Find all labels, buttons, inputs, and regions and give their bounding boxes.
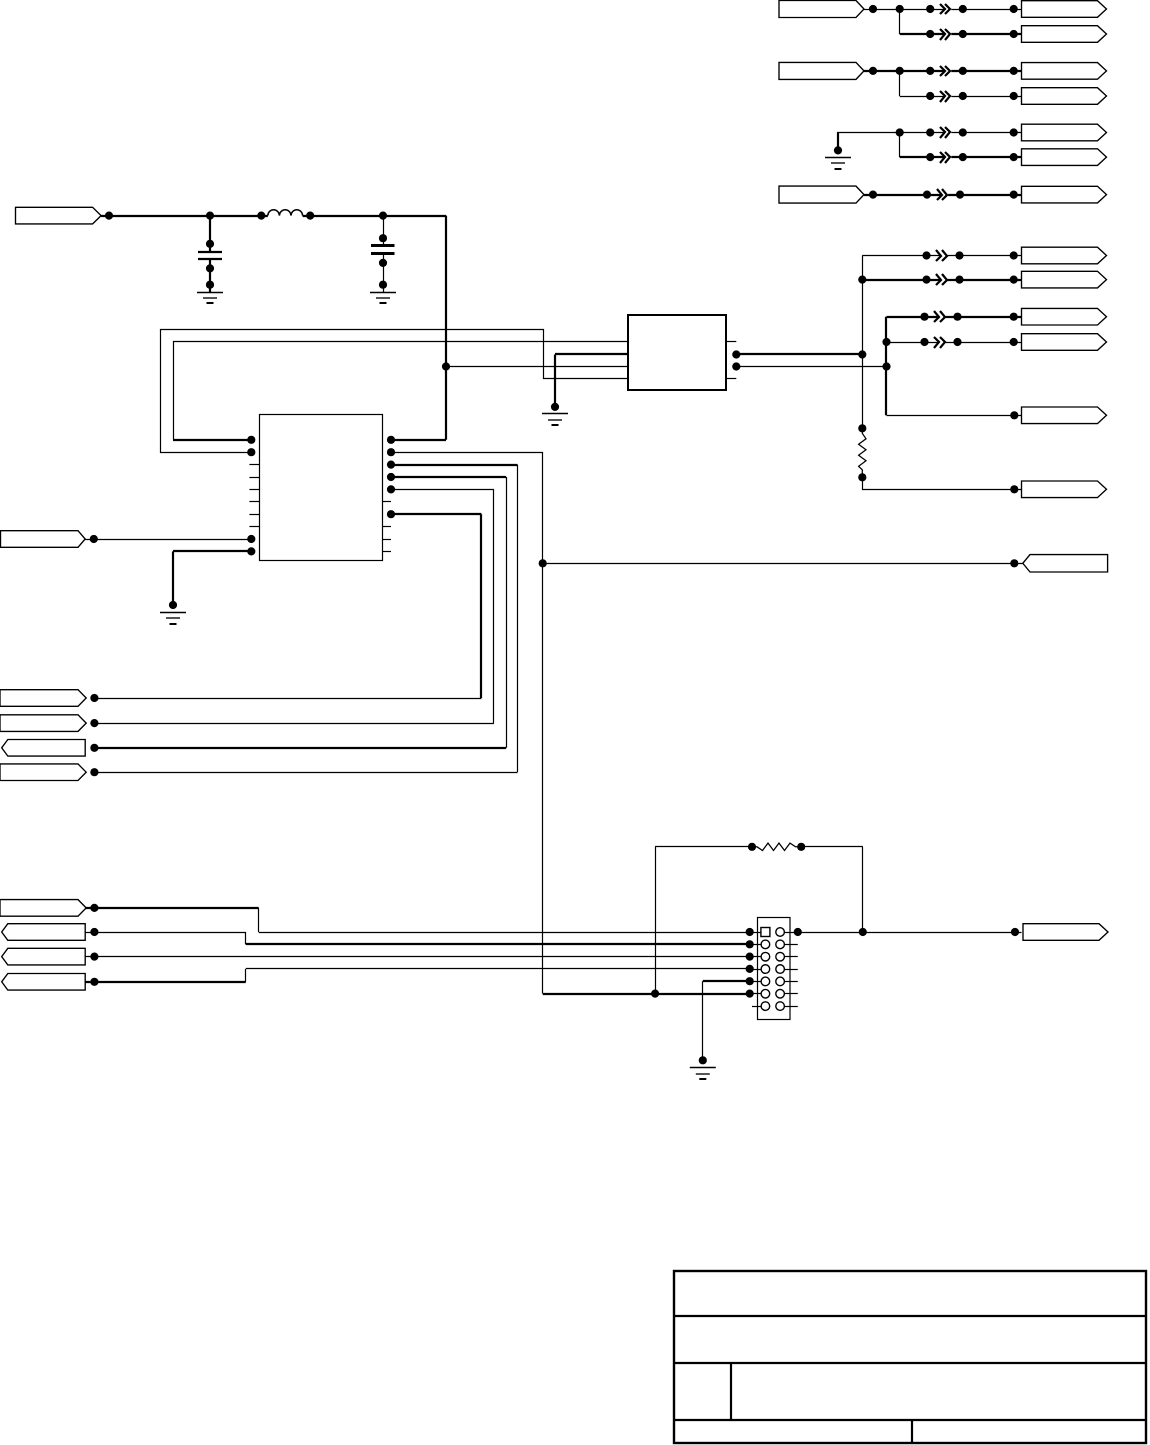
wire U1 pin Q3 net xyxy=(90,473,506,752)
wire serial to connector J1 pin11 xyxy=(543,990,754,998)
net flag IN4 (top group 4 source) xyxy=(779,186,864,203)
wire group2 branch xyxy=(899,71,901,96)
wire U1 pin Q6 net xyxy=(90,510,481,702)
wire R2 left leg xyxy=(655,847,752,994)
net flag SOUT xyxy=(1023,924,1108,941)
wire S2 to J1 pin3 xyxy=(85,928,754,949)
net flag OUT1A xyxy=(1022,1,1107,18)
wire row F xyxy=(863,478,1022,494)
wire power rail segment 2 xyxy=(303,212,446,220)
wire U2 pin3 output xyxy=(732,362,886,370)
wire row D with series link xyxy=(887,337,1022,348)
inductor L1 xyxy=(268,210,315,220)
wire IN2 feed xyxy=(864,67,900,75)
wire inner loop (U1 to U2 pin1) xyxy=(173,342,629,444)
net flag OUT2A xyxy=(1022,63,1107,80)
wire row A with series link xyxy=(862,250,1021,261)
net flag OUT3A xyxy=(1022,124,1107,141)
wire group3 row2 with series link xyxy=(900,152,1022,163)
wire group1 branch xyxy=(899,9,901,34)
capacitor C2 xyxy=(371,216,395,267)
net flag CLKE xyxy=(1022,407,1107,424)
net flag S1 xyxy=(0,900,86,917)
U2 pin stub right 1 xyxy=(726,341,736,343)
ground (group 3) xyxy=(825,146,851,169)
ground (J1) xyxy=(690,1068,716,1080)
wire group1 row2 with series link xyxy=(900,29,1022,40)
wire C1 to ground xyxy=(206,268,214,292)
net flag IN1 (top group 1 source) xyxy=(779,1,864,18)
wire row C with series link xyxy=(887,311,1022,322)
wire power rail segment 1 xyxy=(101,212,268,220)
net flag CLKA xyxy=(1022,247,1107,264)
wire S3 to J1 pin5 xyxy=(85,953,754,961)
wire serial to flag xyxy=(543,559,1023,567)
wire IN1 feed xyxy=(864,5,900,13)
net flag OUT2B xyxy=(1022,88,1107,105)
net flag SERIAL (west) xyxy=(1023,555,1108,572)
wire group4 feed xyxy=(864,191,941,199)
wire group2 row2 with series link xyxy=(900,91,1022,102)
connector J1 left pins xyxy=(761,940,770,1010)
net flag CLKF xyxy=(1022,481,1107,498)
net flag OUT3B xyxy=(1022,149,1107,166)
wire U1 pin Q2 net xyxy=(90,461,517,777)
wire outer loop (U1 to U2 pin4) xyxy=(161,330,629,457)
wire S4 to J1 pin7 xyxy=(85,965,754,986)
U1 right pin stubs xyxy=(383,502,391,552)
net flag CLKB xyxy=(1022,271,1107,288)
ground (U2) xyxy=(542,414,568,426)
wire U1 ground pin xyxy=(169,547,256,609)
connector J1 right pin stubs xyxy=(785,933,798,1007)
wire group3 branch xyxy=(899,133,901,158)
IC U2 (oscillator block) xyxy=(628,315,726,390)
net flag D1 xyxy=(0,690,86,707)
net flag PWR input xyxy=(16,207,102,224)
resistor R1 (pulldown) xyxy=(858,424,866,481)
net flag D4 xyxy=(0,764,86,781)
wire group3 feed from ground xyxy=(837,133,900,151)
wire EN to U1 xyxy=(85,535,255,543)
net flag EN input xyxy=(1,531,86,548)
wire row B with series link xyxy=(862,274,1021,285)
wire clock bus A vertical xyxy=(858,256,866,429)
wire U2 ground pin xyxy=(551,354,628,411)
net flag OUT4 xyxy=(1022,186,1107,203)
wire power to U1 pin xyxy=(387,436,446,444)
net flag S2 xyxy=(2,924,86,941)
wire C2 to ground xyxy=(379,263,387,292)
ground (C1) xyxy=(197,293,223,304)
net flag S4 xyxy=(2,974,86,991)
wire U2 pin2 output xyxy=(732,350,862,358)
wire J1 pin9 to ground xyxy=(699,977,754,1064)
wire group1 row1 with series link xyxy=(896,4,1022,14)
connector J1 body xyxy=(758,918,791,1020)
connector J1 left pin stubs xyxy=(750,933,761,1007)
U1 left pin stubs xyxy=(249,465,259,527)
wire R2 right leg xyxy=(801,847,863,933)
connector J1 right pins xyxy=(776,928,785,1011)
wire row E xyxy=(887,411,1022,419)
wire group4 row with series link xyxy=(923,189,1022,200)
connector J1 pin1 (square) xyxy=(761,928,770,937)
IC U1 (main controller) xyxy=(260,415,383,561)
capacitor C1 xyxy=(198,216,222,273)
ground (U1) xyxy=(160,613,186,625)
U2 pin stub right 4 xyxy=(726,378,736,380)
ground (C2) xyxy=(370,293,396,304)
net flag S3 xyxy=(2,948,86,965)
title block xyxy=(674,1271,1146,1443)
net flag CLKD xyxy=(1022,334,1107,351)
wire J1 pin2 to output flag xyxy=(794,928,1022,936)
net flag OUT1B xyxy=(1022,26,1107,43)
net flag IN2 (top group 2 source) xyxy=(779,62,864,79)
net flag CLKC xyxy=(1022,308,1107,325)
wire group2 row1 with series link xyxy=(896,66,1022,76)
wire S1 to J1 pin1 xyxy=(85,904,754,936)
wire U2 pin3 input from rail xyxy=(446,366,628,368)
resistor R2 xyxy=(748,843,805,851)
wire power rail vertical xyxy=(442,216,450,440)
wire clock bus C vertical xyxy=(882,317,890,416)
net flag D2 xyxy=(0,715,86,732)
wire U1 pin Q4 net xyxy=(90,485,494,727)
wire group3 row1 with series link xyxy=(896,127,1022,138)
net flag D3 xyxy=(2,740,86,757)
wire serial net vertical xyxy=(387,448,547,993)
